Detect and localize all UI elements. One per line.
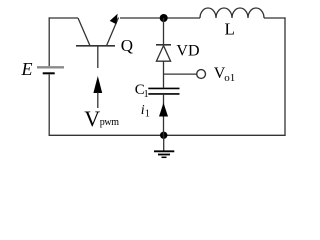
battery E short plate [43,72,55,74]
transistor Q emitter diagonal [78,18,90,46]
ground bar 3 [162,156,167,158]
node junction bottom dot [160,132,167,139]
terminal Vo1 open circle [197,70,206,79]
wire output tap [164,73,197,75]
transistor Q base bar [76,45,115,47]
ground stub [163,135,165,151]
wire capacitor to bottom node [163,94,165,135]
svg-text:Q: Q [121,36,133,55]
svg-text:E: E [21,59,33,79]
wire left vertical lower [48,74,50,135]
wire diode to capacitor [163,61,165,87]
transistor Q collector arrowhead [110,14,118,24]
ground bar 1 [154,150,174,152]
wire bottom horizontal [49,134,286,136]
inductor L coils [200,8,264,18]
wire top-left horizontal [49,17,78,19]
svg-text:o1: o1 [224,72,235,84]
Vpwm control arrow shaft [97,93,99,109]
svg-text:1: 1 [144,89,149,100]
svg-text:pwm: pwm [100,117,119,128]
current i1 arrow [159,103,168,117]
svg-text:VD: VD [176,43,199,60]
wire diode branch upper [163,18,165,45]
svg-text:1: 1 [145,109,150,120]
Vpwm control arrow head [93,76,102,93]
wire top middle [120,17,200,19]
diode VD triangle [156,46,170,62]
svg-text:L: L [225,20,235,39]
battery E long plate [37,66,64,68]
capacitor C1 bottom plate [148,93,179,95]
transistor Q base lead [97,46,99,68]
transistor Q collector diagonal [107,18,119,46]
wire left vertical upper [48,17,50,66]
node junction top dot [160,14,168,22]
wire top-right horizontal [264,17,286,19]
ground bar 2 [158,154,170,156]
svg-text:V: V [84,106,100,131]
diode VD cathode bar [156,44,171,46]
capacitor C1 top plate [148,87,179,89]
wire right vertical [284,17,286,135]
